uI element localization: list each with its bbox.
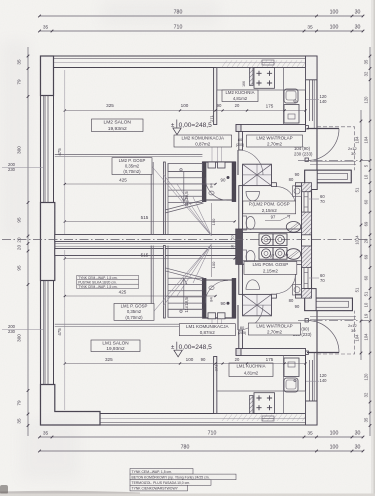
- insulation ticks bottom wall (kitchen): [222, 414, 312, 421]
- label LM2 KUCHNIA: [222, 90, 258, 102]
- label LM1 KUCHNIA: [229, 363, 273, 377]
- LM1 double door leaves salon->komunikacja: [208, 313, 216, 319]
- LM2 porch side wall band: [305, 170, 352, 183]
- LM2 dim 425: [65, 183, 216, 185]
- mid-right wall window LM2 (60/70): [303, 192, 305, 212]
- left dimension chain: [27, 47, 29, 436]
- LM2 salon/kitchen partition: [214, 68, 217, 125]
- LM2 kitchen sink: [284, 89, 298, 103]
- LM1 salon/kitchen partition: [214, 357, 217, 414]
- LM2 closet walls (P.GOSP strip): [150, 162, 152, 235]
- LM1 fan break lines: [152, 244, 212, 314]
- LM2 chimney block X-hatch: [243, 164, 272, 185]
- LM1 stair entry platform: [168, 309, 202, 317]
- LM2 boiler ellipse hatched: [286, 222, 300, 233]
- LM1 stair treads: [168, 277, 202, 279]
- LM2 wiatrolap/pomgosp wall stubs: [272, 183, 277, 187]
- LM1 porch axis dash-dot: [298, 320, 372, 322]
- top dimension line 2: 35 710 35 100 30: [40, 30, 364, 32]
- exterior wall outer face: [41, 56, 353, 425]
- LM1 label pointer lines: [211, 319, 213, 324]
- wall spec notes (3 boxed lines): [77, 275, 139, 279]
- party wall upper band: [55, 235, 239, 242]
- LM1 vent window below stove: [262, 416, 274, 421]
- insulation offset line: [43, 59, 314, 128]
- LM1 door wiatrolap->pomgosp arc: [276, 274, 295, 293]
- LM1 stair up arrow: [181, 279, 188, 285]
- LM1 porch side wall band: [305, 298, 353, 311]
- LM2 stair dim 515: [65, 221, 235, 223]
- LM1 entrance porch dashed outline: [317, 311, 355, 354]
- LM2 fan break lines: [152, 166, 212, 236]
- right dimension chain outer: [369, 47, 371, 436]
- right wall kitchen window LM2: [309, 79, 311, 121]
- LM2 vent window above stove: [262, 60, 274, 65]
- mid-right wall hatched piers: [302, 183, 312, 192]
- LM1 kitchen duct hatched: [250, 396, 254, 414]
- legend wall layers: [130, 469, 193, 475]
- LM2 WC: [243, 216, 247, 230]
- left wall pier bottom corner: [41, 385, 101, 426]
- LM1 ext line + 475: [64, 250, 66, 410]
- LM2 porch steps: [310, 161, 356, 163]
- LM2 entrance door: [305, 126, 308, 129]
- label LM2 KOMUNIKACJA: [174, 135, 232, 147]
- LM1 wiatrolap west wall: [239, 330, 243, 349]
- mid-right wall window LM1 (60/70): [303, 268, 305, 289]
- label LM2 WIATROLAP: [247, 135, 303, 147]
- party wall east section top line: [239, 229, 302, 233]
- label LM2 SALON: [92, 119, 144, 132]
- LM1 counter divider: [283, 356, 285, 414]
- party wall junction block: [236, 229, 243, 264]
- LM1 small unit right wall: [293, 285, 302, 296]
- LM1 kitchen counter: [217, 391, 306, 414]
- scan artifacts: [0, 491, 140, 495]
- LM1 wiatrolap/pomgosp wall stubs: [272, 294, 277, 298]
- party wall east section bottom line: [239, 261, 302, 265]
- LM2 washbasin: [246, 192, 260, 202]
- LM2 stair entry platform: [168, 164, 202, 172]
- LM2 kitchen counter: [217, 68, 306, 91]
- LM1 interior dim chain: [65, 363, 306, 365]
- LM2 door wiatrolap->pomgosp arc: [276, 187, 295, 206]
- bottom dimension line 2: 780 100 30: [40, 450, 364, 452]
- label LM1 WIATROLAP: [248, 323, 300, 335]
- LM1 closet walls (P.GOSP strip): [150, 246, 152, 319]
- LM1 kitchen sink: [284, 378, 298, 392]
- label LM2 POM.GOSP: [243, 201, 296, 214]
- LM1 porch band stub: [305, 289, 316, 311]
- LM1 dim 97: [265, 259, 278, 261]
- LM2 label pointer lines: [211, 147, 213, 161]
- LM1 pomgosp/stair wall: [239, 264, 243, 294]
- LM1 komunikacja box walls: [202, 279, 206, 319]
- LM2 entrance porch dashed outline: [317, 127, 355, 170]
- LM1 door komunikacja->stairs + arc: [205, 281, 228, 304]
- top dimension line 1: 780 100 30: [40, 15, 364, 17]
- label LM1 SALON: [91, 340, 140, 352]
- LM2 head-height dim 100: [211, 203, 213, 235]
- LM2 stair break line: [165, 200, 204, 213]
- party wall lower band: [55, 249, 239, 256]
- LM2 door komunikacja->stairs + arc: [205, 178, 228, 201]
- LM2 stove: [254, 68, 275, 89]
- label LM2 P.GOSP: [112, 158, 152, 175]
- LM1 boiler ellipse hatched: [286, 249, 300, 260]
- LM2 porch band stub: [305, 170, 318, 189]
- LM2 double door leaves salon->komunikacja: [208, 162, 216, 168]
- left wall window glazing top: [44, 96, 46, 203]
- LM2 komunikacja box walls: [202, 162, 206, 202]
- LM1 washbasin: [246, 280, 260, 290]
- LM1 porch steps: [310, 316, 356, 318]
- washer row LM1: [259, 248, 273, 260]
- LM2 stair up arrow: [181, 196, 188, 202]
- right wall kitchen window LM1: [309, 360, 311, 402]
- LM1 dim 425: [65, 295, 216, 297]
- LM2 counter divider: [283, 68, 285, 125]
- left wall pier top: [41, 56, 54, 96]
- LM1 entrance door: [305, 319, 308, 322]
- LM2 stair treads: [168, 171, 202, 173]
- LM1 salon/stair zone boundary: [55, 323, 203, 325]
- right wall corner pier top: [306, 56, 318, 80]
- LM2 fridge: [284, 105, 299, 124]
- left wall pier middle: [41, 203, 55, 281]
- LM2 ext line + 475: [64, 70, 66, 234]
- LM1 door komunikacja->wiatrolap: [237, 305, 239, 330]
- LM2 door komunikacja->wiatrolap: [237, 150, 239, 175]
- LM2 pomgosp/stair wall: [239, 186, 243, 229]
- LM2 salon/stair zone boundary: [55, 153, 203, 155]
- LM2 interior dim chain: [65, 110, 306, 112]
- label LM1 POM.GOSP: [244, 262, 297, 275]
- LM2 kitchen south wall band: [236, 125, 306, 132]
- LM1 stair break line: [165, 268, 204, 281]
- LM1 chimney block X-hatch: [243, 294, 272, 315]
- right wall corner pier bottom: [306, 401, 318, 425]
- LM2 wiatrolap west wall: [239, 132, 243, 151]
- LM1 WC: [243, 250, 247, 264]
- party wall mid insulation lines: [55, 242, 239, 244]
- LM1 head-height dim 100: [211, 246, 213, 278]
- insulation ticks top wall (kitchen): [222, 60, 312, 67]
- LM2 porch axis dash-dot: [298, 159, 372, 161]
- label LM1 KOMUNIKACJA: [179, 324, 235, 336]
- LM2 kitchen duct hatched: [250, 68, 254, 86]
- LM2 small unit right wall: [293, 186, 302, 197]
- inner wall face: [54, 68, 306, 125]
- label LM1 P.GOSP: [114, 304, 154, 321]
- central axis dash-dot: [2, 239, 373, 241]
- LM2 dim 97: [265, 220, 280, 222]
- LM1 fridge: [284, 358, 299, 377]
- LM1 stair dim 515: [65, 258, 235, 260]
- washer row LM2: [259, 234, 273, 246]
- right dimension chain inner: [360, 110, 362, 360]
- LM1 kitchen north wall band: [236, 349, 306, 356]
- scan noise overlay: [0, 0, 1, 1]
- LM1 stove: [254, 393, 275, 414]
- bottom dimension line 1: 35 710 35 100 30: [40, 436, 364, 438]
- left wall window glazing bottom: [44, 281, 46, 385]
